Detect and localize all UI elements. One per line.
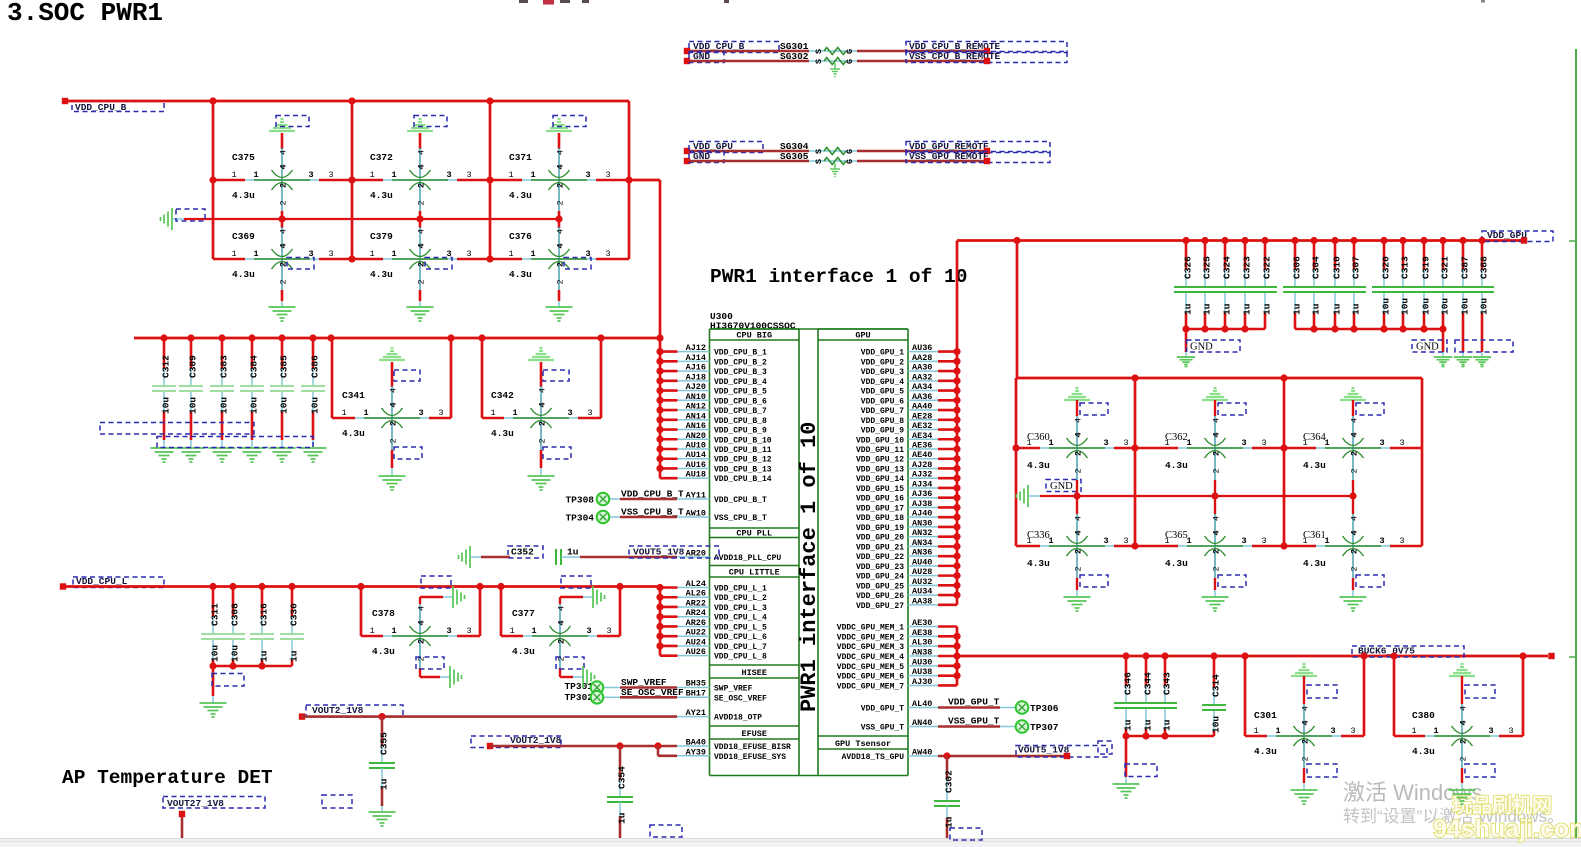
grounds bank3 [1434,357,1491,367]
svg-text:VSS_GPU_REMOTE: VSS_GPU_REMOTE [909,151,989,162]
capacitor C380 4.3u [1411,704,1513,768]
svg-text:AP Temperature DET: AP Temperature DET [62,767,273,789]
wire VDDC_GPU_MEM pin bus [938,627,957,686]
wire C301 block frame [1245,656,1364,736]
ground below C369 [269,307,296,321]
junction dots on rail 338 [160,334,663,341]
wire left pin bus [659,352,662,479]
wire pin4 of C378 to ground [420,597,453,604]
svg-text:2: 2 [1074,451,1084,456]
net label VSS_GPU_REMOTE [906,151,1050,164]
wire pin2 of C336 to ground [1077,575,1108,597]
pin AA36 VDD_GPU_6 [861,392,938,407]
svg-text:1: 1 [253,249,258,259]
svg-text:4: 4 [1074,418,1084,423]
wire pin4 of C376 from ground rail [558,219,561,228]
wire CPU LITTLE pin bus [660,588,678,656]
svg-text:VDD_CPU_B_2: VDD_CPU_B_2 [714,358,767,367]
svg-text:4: 4 [1350,418,1360,423]
svg-text:2: 2 [538,438,548,443]
wire pin4 of C342 [541,362,569,387]
svg-text:VDD18_EFUSE_BISR: VDD18_EFUSE_BISR [714,743,791,752]
pin AJ14 VDD_CPU_B_2 [677,353,767,368]
svg-text:3: 3 [587,408,592,418]
svg-text:3: 3 [1379,438,1384,448]
svg-text:4.3u: 4.3u [509,190,532,201]
svg-text:VDD_GPU_19: VDD_GPU_19 [856,524,904,533]
svg-text:4.3u: 4.3u [232,269,255,280]
wire VDD_CPU_B to SG301 [690,50,809,53]
svg-text:2: 2 [1212,566,1222,571]
svg-text:VDDC_GPU_MEM_1: VDDC_GPU_MEM_1 [837,624,904,633]
capacitor C308 10u [221,587,245,667]
capacitor C312 10u [152,338,176,440]
test point TP304 [565,511,609,524]
pin AN16 VDD_CPU_B_9 [677,421,767,436]
analog ground above C364 [1340,388,1366,400]
capacitor C346 1u [1114,656,1138,736]
svg-text:3: 3 [585,170,590,180]
analog ground above C341 [379,348,405,360]
net boxes across C312 bank [100,423,313,448]
pin AR24 VDD_CPU_L_4 [677,608,767,623]
pin AU40 VDD_GPU_23 [856,557,938,572]
svg-text:3: 3 [1103,536,1108,546]
svg-text:VDD_CPU_L_4: VDD_CPU_L_4 [714,614,767,623]
svg-text:VDDC_GPU_MEM_2: VDDC_GPU_MEM_2 [837,633,904,642]
svg-text:10u: 10u [1460,298,1471,315]
svg-text:10u: 10u [210,645,221,662]
svg-text:1: 1 [391,170,396,180]
capacitor C354 1u [607,746,633,838]
svg-text:CPU BIG: CPU BIG [736,331,772,341]
wire top rail to C360 block [1013,237,1020,378]
svg-text:2: 2 [1074,468,1084,473]
pin AJ16 VDD_CPU_B_3 [677,363,767,378]
svg-text:BH35: BH35 [686,679,706,689]
capacitor C386 10u [301,338,325,440]
svg-text:10u: 10u [1400,298,1411,315]
net box near C369 pin3 [287,258,314,270]
wire GND to SG302 [690,60,809,63]
svg-text:C307: C307 [1351,256,1362,279]
svg-text:C344: C344 [1143,672,1154,695]
net box near C355 [322,795,352,808]
capacitor C342 4.3u [490,386,592,450]
svg-text:C376: C376 [509,231,532,242]
svg-text:GND: GND [1050,481,1073,492]
wire pin2 of C378 to ground [416,657,450,677]
capacitor C387 10u [1451,241,1475,353]
capacitor C376 4.3u [508,227,610,291]
wire C342 block frame [482,338,601,418]
pin AL30 VDDC_GPU_MEM_3 [837,638,938,653]
svg-text:1: 1 [531,626,536,636]
svg-text:4: 4 [389,388,399,393]
svg-text:TP301: TP301 [564,681,593,692]
svg-text:1u: 1u [1143,719,1154,731]
capacitor C355 1u [369,717,395,812]
capacitor C313 10u [1391,241,1415,330]
svg-text:CPU PLL: CPU PLL [736,529,772,539]
watermark texts [1343,780,1581,843]
capacitor C316 1u [250,587,274,667]
wire VDD_CPU_L rail [63,585,660,588]
svg-text:3: 3 [446,626,451,636]
svg-text:4: 4 [556,243,566,248]
ground rail (mid) with sideways ground [161,208,560,230]
svg-text:C352: C352 [511,547,534,558]
capacitor C341 4.3u [341,386,443,450]
svg-text:C314: C314 [1211,674,1222,697]
svg-text:VSS_GPU_T: VSS_GPU_T [948,716,1000,727]
svg-text:2: 2 [1350,468,1360,473]
pin AJ18 VDD_CPU_B_4 [677,372,767,387]
svg-text:C375: C375 [232,152,255,163]
wire pin4 of C379 from ground rail [419,219,422,228]
svg-text:4.3u: 4.3u [370,269,393,280]
pin AU32 VDD_GPU_25 [856,577,938,592]
pin BH17 SE_OSC_VREF [677,694,767,703]
capacitor C311 10u [201,587,225,667]
svg-text:3: 3 [1123,536,1128,546]
svg-text:3: 3 [308,170,313,180]
wire pin4 of C369 from ground rail [281,219,284,228]
net label VDD_CPU_B [684,41,779,54]
wire SG305 to VSS_GPU_REMOTE [857,160,987,163]
wire pin2 of C376 to ground [558,290,561,307]
ground below C379 [407,307,434,321]
pin AJ40 VDD_GPU_18 [856,509,938,524]
svg-text:4: 4 [1459,720,1469,725]
net label VDD_GPU_REMOTE [906,141,1050,154]
net label VDD_GPU [1482,230,1553,244]
capacitor C388 10u [1470,241,1494,353]
svg-text:4.3u: 4.3u [372,646,395,657]
svg-text:AVDD18_TS_GPU: AVDD18_TS_GPU [842,753,905,762]
svg-text:VDD_GPU_T: VDD_GPU_T [861,705,904,714]
svg-text:2: 2 [1074,549,1084,554]
ground at C377 pin2 [583,666,595,688]
capacitor C383 10u [210,338,234,440]
pin AJ32 VDD_GPU_14 [856,470,938,485]
pin AL26 VDD_CPU_L_2 [677,589,767,604]
ground below C336 [1064,597,1091,611]
svg-text:AVDD18_PLL_CPU: AVDD18_PLL_CPU [714,554,781,563]
svg-text:4.3u: 4.3u [342,428,365,439]
svg-text:VDD_CPU_L_1: VDD_CPU_L_1 [714,585,767,594]
svg-text:C372: C372 [370,152,393,163]
svg-text:1u: 1u [1162,719,1173,731]
svg-text:VDD_GPU_13: VDD_GPU_13 [856,465,904,474]
svg-text:VDD_GPU_15: VDD_GPU_15 [856,485,904,494]
wire row2 cap line segments [1016,545,1422,547]
wire to ground + net box [212,666,244,703]
section header CPU PLL [710,528,800,539]
svg-text:VDDC_GPU_MEM_7: VDDC_GPU_MEM_7 [837,682,904,691]
svg-text:C316: C316 [259,603,270,626]
capacitor C384 10u [240,338,264,440]
svg-text:AVDD18_OTP: AVDD18_OTP [714,714,762,723]
window bottom band [0,839,1581,847]
wire VOUT27_1V8 down [179,811,185,838]
pin AU10 VDD_CPU_B_11 [677,441,772,456]
svg-text:3: 3 [1350,726,1355,736]
svg-text:3: 3 [1123,438,1128,448]
svg-text:VDD_CPU_B_12: VDD_CPU_B_12 [714,456,772,465]
svg-text:C312: C312 [161,355,172,378]
svg-text:4.3u: 4.3u [232,190,255,201]
svg-text:10u: 10u [161,397,172,414]
svg-text:1: 1 [1275,726,1280,736]
svg-text:C304: C304 [1311,256,1322,279]
svg-text:C380: C380 [1412,710,1435,721]
wire BUCK6_0V75 rail [957,655,1548,658]
capacitor C323 1u [1233,241,1257,330]
wire SG302 to VSS_CPU_B_REMOTE [857,60,987,63]
svg-text:C383: C383 [219,355,230,378]
pin AE40 VDD_GPU_12 [856,450,938,465]
wire C377 block frame [501,587,620,637]
svg-text:1: 1 [490,408,495,418]
svg-text:C326: C326 [1183,256,1194,279]
svg-text:2: 2 [556,279,566,284]
svg-text:2: 2 [279,183,289,188]
svg-text:GND: GND [1190,342,1213,353]
svg-text:4: 4 [1074,432,1084,437]
capacitor C372 4.3u [369,148,471,212]
capacitor C343 1u [1153,656,1177,736]
pin AN12 VDD_CPU_B_7 [677,402,767,417]
pin AN20 VDD_CPU_B_10 [677,431,772,446]
svg-text:VDD_CPU_B_1: VDD_CPU_B_1 [714,349,767,358]
ground below C365 [1202,597,1229,611]
pin AN30 VDD_GPU_19 [856,518,938,533]
svg-text:S: S [814,159,824,164]
svg-text:3: 3 [466,170,471,180]
svg-text:2: 2 [1301,739,1311,744]
pin AR20 AVDD18_PLL_CPU [677,549,781,564]
svg-text:EFUSE: EFUSE [741,729,767,739]
svg-text:HISEE: HISEE [741,668,767,678]
svg-text:VDD_CPU_L_3: VDD_CPU_L_3 [714,604,767,613]
svg-text:1u: 1u [944,816,955,828]
svg-text:VDD_CPU_L_5: VDD_CPU_L_5 [714,623,767,632]
svg-text:3: 3 [1103,438,1108,448]
capacitor C319 10u [1412,241,1436,330]
svg-text:VDDC_GPU_MEM_4: VDDC_GPU_MEM_4 [837,653,904,662]
net label GND (bank3) [1412,340,1513,353]
wire pin4 of C371 [558,133,561,149]
svg-text:VDD_GPU_10: VDD_GPU_10 [856,436,904,445]
pin AW10 VSS_CPU_B_T [677,509,767,524]
svg-text:1: 1 [391,249,396,259]
net label VOUT27_1V8 [163,797,265,810]
svg-text:C321: C321 [1440,256,1451,279]
svg-text:94shuaji.com: 94shuaji.com [1433,815,1581,843]
test point TP307 [1016,720,1059,733]
svg-text:C342: C342 [491,390,514,401]
pin AU24 VDD_CPU_L_7 [677,637,767,652]
svg-text:3: 3 [328,170,333,180]
svg-text:1u: 1u [289,650,300,662]
svg-text:GND: GND [1416,342,1439,353]
section header GPU Tsensor [818,736,908,749]
net box at mid ground rail [176,209,205,221]
svg-text:C343: C343 [1162,672,1173,695]
pin AL24 VDD_CPU_L_1 [677,579,767,594]
svg-text:VDD_CPU_B_8: VDD_CPU_B_8 [714,417,767,426]
ground at C378 pin2 [450,666,462,688]
pin AR22 VDD_CPU_L_3 [677,598,767,613]
junction dots on cap rows [209,176,632,262]
svg-text:1: 1 [1253,726,1258,736]
svg-text:4: 4 [1350,432,1360,437]
svg-text:10u: 10u [188,397,199,414]
svg-text:10u: 10u [310,397,321,414]
svg-text:VDD_GPU_2: VDD_GPU_2 [861,358,904,367]
capacitor C301 4.3u [1253,704,1355,768]
capacitor C309 10u [179,338,203,440]
ground below C311 bank [200,703,227,717]
svg-text:2: 2 [417,183,427,188]
wire SG304 to VDD_GPU_REMOTE [857,150,987,153]
svg-text:1: 1 [369,626,374,636]
svg-text:VDD_GPU_12: VDD_GPU_12 [856,456,904,465]
svg-text:C379: C379 [370,231,393,242]
svg-text:1: 1 [530,249,535,259]
wire pin4 of C365 [1214,496,1216,514]
svg-text:3: 3 [586,626,591,636]
pin AN38 VDDC_GPU_MEM_4 [837,647,938,662]
svg-text:玩品刷机网: 玩品刷机网 [1452,793,1552,817]
wire pin feeds CPU BIG [660,352,678,479]
svg-text:4.3u: 4.3u [1254,746,1277,757]
svg-text:2: 2 [1350,566,1360,571]
svg-text:2: 2 [538,421,548,426]
svg-text:4.3u: 4.3u [1303,558,1326,569]
svg-text:4: 4 [389,402,399,407]
wire pin2 of C360 [1076,480,1078,496]
svg-text:2: 2 [1350,549,1360,554]
svg-text:VDD_GPU_23: VDD_GPU_23 [856,563,904,572]
svg-text:1u: 1u [1242,303,1253,315]
svg-text:4: 4 [417,606,427,611]
pin AY21 AVDD18_OTP [677,708,762,723]
junction dots on VDD_GPU rail [1182,237,1485,244]
section header GPU [818,329,908,341]
wire VDD_GPU_T [938,697,1015,708]
wire capacitor row 2 net [213,258,629,261]
wire VDD_GPU top rail [957,239,1523,242]
junction dots on mid rail [278,215,562,222]
svg-text:4.3u: 4.3u [1303,460,1326,471]
svg-text:3: 3 [1241,536,1246,546]
svg-text:3: 3 [1261,438,1266,448]
svg-text:VDD_GPU_16: VDD_GPU_16 [856,495,904,504]
section header CPU LITTLE [710,566,800,578]
svg-text:VDD_GPU_18: VDD_GPU_18 [856,514,904,523]
capacitor C336 4.3u [1026,514,1128,578]
pin AU34 VDD_GPU_26 [856,587,938,602]
wire row1 cap line segments [1016,447,1422,449]
svg-text:1: 1 [231,170,236,180]
svg-text:4: 4 [279,243,289,248]
wire pin4 of C341 [392,362,420,387]
svg-text:VDD_GPU_25: VDD_GPU_25 [856,582,904,591]
pin AE38 VDDC_GPU_MEM_2 [837,628,938,643]
svg-text:1u: 1u [1292,303,1303,315]
pin AW40 AVDD18_TS_GPU [842,748,938,763]
cropped red stamp fragments at top edge [519,0,1485,5]
svg-text:C384: C384 [249,355,260,378]
svg-text:VDD_GPU_17: VDD_GPU_17 [856,504,904,513]
pin AU38 VDDC_GPU_MEM_6 [837,667,938,682]
wire pin2 of C365 to ground [1215,575,1246,597]
wire pin4 of C377 to ground [560,597,593,604]
svg-text:C319: C319 [1421,256,1432,279]
pin AA34 VDD_GPU_5 [861,382,938,397]
ground below C380 [1449,790,1476,804]
svg-text:VDD_GPU_22: VDD_GPU_22 [856,553,904,562]
svg-text:3: 3 [605,249,610,259]
svg-text:VDD_CPU_B_14: VDD_CPU_B_14 [714,475,772,484]
svg-text:4: 4 [1212,418,1222,423]
pin AU36 VDD_GPU_1 [861,343,938,358]
section header CPU BIG [710,329,800,341]
wire VSS_GPU_T [938,716,1015,727]
svg-text:1: 1 [369,170,374,180]
svg-text:1: 1 [508,170,513,180]
svg-text:3: 3 [1488,726,1493,736]
svg-text:4.3u: 4.3u [509,269,532,280]
svg-text:C388: C388 [1479,256,1490,279]
svg-text:4: 4 [1350,516,1360,521]
svg-text:G: G [845,159,855,164]
svg-text:10u: 10u [1479,298,1490,315]
svg-text:C302: C302 [944,770,955,793]
svg-text:3: 3 [1508,726,1513,736]
svg-text:C364: C364 [1303,432,1327,443]
pin AL40 VDD_GPU_T [861,699,938,714]
pin AJ38 VDD_GPU_17 [856,499,938,514]
pin AN32 VDD_GPU_20 [856,528,938,543]
svg-text:4.3u: 4.3u [370,190,393,201]
wire SG301 to VDD_CPU_B_REMOTE [857,50,987,53]
net label VOUT2_1V8 [299,705,403,720]
capacitor C326 1u [1174,241,1198,330]
wire pin2 of C379 to ground [419,290,422,307]
wire pin2 of C380 to ground [1462,764,1495,790]
svg-text:C360: C360 [1027,432,1050,443]
pin AN40 VSS_GPU_T [861,718,938,733]
capacitor C330 1u [280,587,304,667]
svg-text:VDD_CPU_L_8: VDD_CPU_L_8 [714,653,767,662]
ground below C301 [1291,790,1318,804]
pin AJ34 VDD_GPU_15 [856,479,938,494]
svg-text:C387: C387 [1460,256,1471,279]
svg-text:1: 1 [530,170,535,180]
analog ground above C360 [1064,388,1090,400]
svg-text:2: 2 [417,279,427,284]
svg-text:C311: C311 [210,603,221,626]
net label VOUT2_1V8 (efuse) [471,735,562,749]
svg-text:SG305: SG305 [780,151,809,162]
pin BA40 VDD18_EFUSE_BISR [677,738,791,753]
svg-text:2: 2 [1212,468,1222,473]
svg-text:VDD_GPU_14: VDD_GPU_14 [856,475,904,484]
wire pin4 of C362 [1215,400,1246,416]
